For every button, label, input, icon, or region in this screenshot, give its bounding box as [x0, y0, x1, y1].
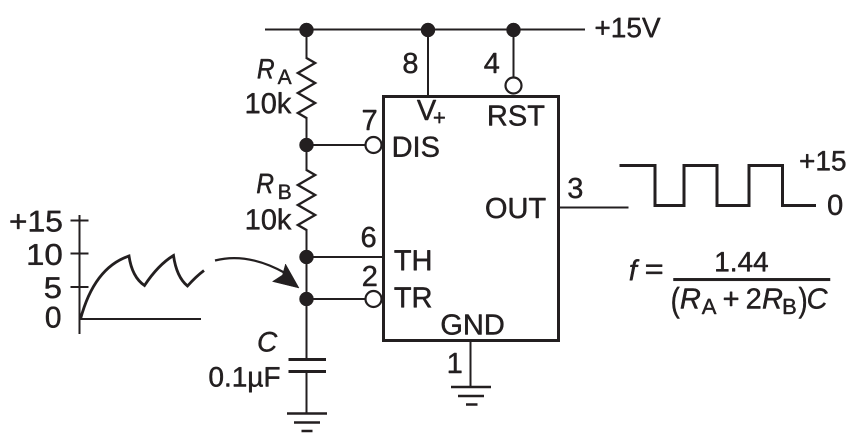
label +15V supply: [596, 18, 661, 38]
label pin name TH: [395, 250, 431, 270]
junction dot rail RA: [300, 23, 314, 37]
label resistor RB name: [257, 174, 273, 193]
label resistor RA value: [247, 92, 292, 113]
wire RA to node: [306, 117, 308, 146]
label output low level 0: [828, 195, 842, 216]
wire node to DIS pin: [307, 144, 367, 146]
formula coefficient 2: [747, 288, 760, 308]
left waveform y-axis: [79, 215, 81, 334]
label pin name GND: [442, 314, 504, 335]
junction dot RA RB DIS node: [300, 138, 314, 152]
formula open paren: [672, 287, 679, 319]
ground symbol below capacitor: [287, 414, 327, 432]
label capacitor C value: [210, 367, 280, 392]
axis baseline 0: [80, 318, 202, 320]
pin 7 DIS inverter circle: [366, 137, 382, 153]
wire pin 1 GND: [470, 340, 472, 387]
pin 2 TR inverter circle: [366, 291, 382, 307]
wire RB to TH node: [306, 229, 308, 258]
axis tick 10: [71, 253, 89, 255]
wire capacitor to ground: [306, 373, 308, 413]
label pin name V+: [417, 100, 436, 120]
label resistor RB subscript: [279, 185, 290, 199]
label axis 5: [45, 277, 61, 298]
label resistor RB value: [247, 208, 292, 229]
label pin 6: [362, 227, 375, 248]
arrow curve to TR node: [215, 258, 286, 273]
label resistor RA name: [258, 59, 274, 78]
formula f: [630, 259, 640, 280]
wire TH node to TR node: [306, 256, 308, 300]
label axis +15: [11, 211, 62, 232]
label pin name DIS: [394, 137, 439, 158]
junction dot TR node: [300, 292, 314, 306]
label pin name V+ plus: [434, 112, 445, 123]
label axis 10: [29, 244, 62, 265]
label pin name OUT: [486, 198, 545, 219]
pin 4 RST inverter circle: [506, 78, 522, 94]
label resistor RA subscript: [278, 70, 292, 84]
wire TR node to capacitor C: [306, 298, 308, 359]
wire pin 3 OUT: [558, 207, 629, 209]
label pin 7: [363, 110, 376, 130]
IC U1 555 timer body: [384, 97, 559, 341]
wire pin 4 to rail: [513, 30, 515, 77]
label axis 0: [46, 307, 60, 328]
formula close paren: [799, 287, 806, 319]
formula fraction bar: [674, 278, 831, 281]
wire +15V power rail: [265, 29, 585, 31]
label pin 8: [404, 53, 418, 74]
label output high level +15: [800, 151, 845, 171]
capacitor voltage sawtooth curve: [81, 256, 205, 320]
wire TH node to pin 6: [307, 256, 384, 258]
ground symbol below pin 1: [451, 387, 491, 405]
arrowhead: [273, 264, 300, 288]
junction dot rail pin8: [421, 23, 435, 37]
resistor RB: [298, 170, 315, 230]
label pin 3: [568, 178, 582, 199]
junction dot TH node: [300, 250, 314, 264]
label pin 2: [363, 266, 376, 286]
formula equals: [646, 265, 662, 274]
formula RA subscript: [702, 299, 717, 314]
wire rail to resistor RA: [306, 30, 308, 59]
formula RB subscript: [784, 299, 796, 314]
label capacitor C name: [259, 332, 278, 352]
label pin 4: [484, 53, 499, 73]
formula numerator 1.44: [716, 252, 768, 271]
wire pin 8 to rail: [427, 30, 429, 96]
axis tick 5: [71, 286, 89, 288]
resistor RA: [298, 58, 315, 118]
capacitor C bottom plate: [289, 370, 327, 373]
label pin 1: [449, 353, 462, 373]
junction dot rail pin4: [507, 23, 521, 37]
axis tick +15: [71, 220, 89, 222]
label pin name TR: [395, 287, 432, 307]
formula RA name: [681, 289, 700, 309]
wire TR node to pin 2: [307, 298, 367, 300]
formula plus: [724, 292, 738, 306]
formula RB name: [763, 289, 782, 309]
output square waveform: [620, 166, 817, 206]
formula C name: [808, 288, 828, 309]
label pin name RST: [489, 105, 544, 126]
capacitor C top plate: [289, 358, 327, 361]
wire node to resistor RB: [306, 144, 308, 171]
